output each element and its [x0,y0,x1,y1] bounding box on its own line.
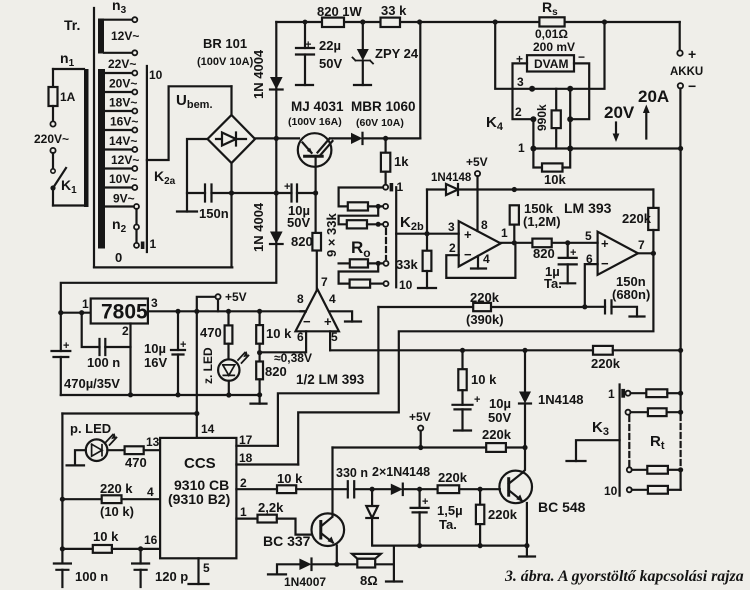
svg-text:1: 1 [501,226,508,240]
svg-text:100 n: 100 n [75,569,108,584]
node rail K4 right [602,19,607,24]
node 7805 input left [58,310,63,315]
wire bridge bottom to 0 line [230,163,232,267]
wire Rt r1 right [667,392,680,394]
svg-text:470µ/35V: 470µ/35V [64,376,120,391]
wire tap 9V [105,205,134,207]
svg-text:4: 4 [329,292,336,306]
node zLED ground [226,392,231,397]
svg-text:10 k: 10 k [266,326,292,341]
transistor BC548 base bar [507,479,510,496]
terminal n2 bottom [134,243,139,248]
wire Rt r2 right [667,411,681,413]
transistor BC337 emitter [321,533,333,543]
resistor 820 1W [322,18,344,27]
wire 10k to 10u50V [461,390,463,405]
svg-text:3: 3 [151,296,158,310]
capacitor 1u Ta plates [559,258,577,265]
IC CCS 9310 box [160,438,236,558]
wire to switch circle [52,153,54,169]
speaker 8ohm cone [352,554,381,559]
svg-text:10V~: 10V~ [109,172,137,186]
svg-text:1: 1 [518,141,525,155]
node +5V distribution [194,309,199,314]
resistor 150k [510,205,519,224]
transistor MJ4031 base bar [305,155,323,158]
wire diode to 1,5u node [403,488,438,490]
svg-text:17: 17 [239,433,253,447]
wire K4 left vertical [495,22,532,89]
wire primary left upper [52,69,54,87]
svg-text:220k: 220k [591,356,621,371]
wire 470 to LED [227,344,229,360]
svg-text:−: − [303,314,311,329]
node rail after 33k [417,19,422,24]
svg-text:MJ 4031: MJ 4031 [291,99,344,114]
resistor 820 upper [312,233,321,251]
svg-text:−: − [578,50,585,64]
wire pulldown bottom [479,524,481,546]
wire opamp3 pin4 [331,311,353,321]
wire opamp3 pin5 [329,331,331,350]
wire +5V terminal stub [217,299,219,311]
diode MBR1060 [351,133,363,144]
wiper mark terminal 1 K2b [390,183,394,191]
wire MBR1060 to corner [363,137,421,139]
svg-text:10: 10 [149,68,163,82]
svg-text:16V: 16V [144,355,167,370]
svg-text:1: 1 [150,237,157,251]
terminal AKKU minus [678,83,683,88]
node pulldown rail [478,543,483,548]
wire pLED left to ground [75,450,86,465]
wire Ro chain top [339,188,383,207]
node 1k tap [383,136,388,141]
wire left rail lower section [61,414,63,562]
wire 820 to ground [259,379,261,403]
capacitor 150n2 wire left [585,306,605,308]
switch K3 arm [576,440,620,461]
wire 7805 pin2 [129,324,131,395]
terminal n2 mid [134,225,139,230]
svg-text:6: 6 [586,252,593,266]
node collector junction [522,445,527,450]
LED p.LED arrows [106,435,117,446]
resistor 10k K4 [542,163,563,171]
node +5V audio [418,445,423,450]
wire 470 to chip pin13 [144,449,160,451]
capacitor 10u 50V wire left [232,192,292,194]
node 1,5u tap [417,487,422,492]
wire emitter to speaker [337,563,358,565]
wire opamp1 output row [501,242,598,244]
wire K4 left column 2-1 [532,119,534,148]
capacitor 22u lower stub [304,55,306,86]
terminal Rt row4 [627,487,632,492]
svg-text:8Ω: 8Ω [360,573,378,588]
resistor Ro r10 [350,280,371,288]
wire +5V stub [476,176,478,189]
wire Ro zigzag 2-3 [339,206,379,224]
wire fuse to terminal [52,106,54,121]
wire Ro dashed continuation [385,229,387,259]
svg-text:820 1W: 820 1W [317,4,363,19]
LED z.LED arrows [238,353,249,364]
svg-text:z. LED: z. LED [201,347,215,384]
wire 33k vertical [426,234,428,251]
wire tap 14V [105,148,132,150]
transistor MJ4031 circle [298,133,332,167]
svg-text:5: 5 [585,229,592,243]
wire MJ4031 to MBR1060 [331,137,352,139]
capacitor 100n2 stub [61,570,63,587]
resistor Ro r8 [350,259,368,267]
wire opamp2 output [638,252,653,254]
capacitor 1,5u wires [419,489,421,545]
resistor 820 mid [532,239,551,248]
wire n3 bottom tap [104,52,132,54]
node ZPY24 rail [360,19,365,24]
LED z.LED circle [218,359,239,380]
svg-text:12V~: 12V~ [111,153,139,167]
resistor 470 zled top wire [227,311,229,325]
transformer n3 winding bar [98,19,104,54]
svg-text:18: 18 [239,451,253,465]
wire diode to +5V rail line [458,188,653,190]
transistor MJ4031 collector arrow [303,143,312,153]
wire Ro r8 left [339,262,350,264]
wire Rt row2 [631,411,648,413]
svg-text:330 n: 330 n [336,466,368,480]
resistor 1k [381,153,390,172]
capacitor 100n plates [100,339,106,355]
LED p.LED circle [86,439,108,461]
switch K1 contact dot [50,185,55,190]
svg-text:20V~: 20V~ [109,77,137,91]
ground bar pLED [67,464,84,466]
transistor BC548 circle [499,471,532,504]
node 220k pulldown tap [478,487,483,492]
wire 7805 input row [61,312,91,314]
wire 10k pin2 to 330n [296,488,348,490]
svg-text:MBR 1060: MBR 1060 [351,99,416,114]
svg-text:14V~: 14V~ [109,134,137,148]
wire DVAM left lead [513,63,534,119]
wire primary bottom [53,204,84,206]
terminal K2b tap3 [383,222,388,227]
terminal tap 18V [132,109,137,114]
wire opamp2 pin6 [585,264,598,307]
wire Ro r8 right [368,262,383,264]
transistor BC337 collector [321,518,332,527]
terminal n3 top [132,17,137,22]
diode 1N4148 opamp1 [446,184,458,195]
node 10u16V rail [175,309,180,314]
svg-text:470: 470 [200,325,222,340]
wire transformer bottom 0 [94,266,232,268]
resistor 990k [552,110,561,128]
node 120p tap [138,546,143,551]
wire Rt row4 [632,489,648,491]
LED p.LED symbol [92,444,102,456]
svg-text:820: 820 [265,364,287,379]
capacitor 100n wire left [82,313,100,347]
terminal tap 22V [132,71,137,76]
wire 820 column upper [316,193,317,289]
wire ground to 1N4007 [277,564,299,574]
diode 2x1N4148 a [391,484,403,495]
svg-text:ZPY 24: ZPY 24 [375,46,419,61]
capacitor 120p wire [140,549,142,564]
wire 220k(10k) row pin4 [62,498,101,500]
svg-text:2×1N4148: 2×1N4148 [372,465,430,479]
wire 330n to diode [354,488,372,490]
svg-text:9 × 33k: 9 × 33k [324,212,339,257]
svg-text:5: 5 [203,561,210,575]
terminal Rt row3 [627,467,632,472]
wire 1N4004 column [61,22,276,313]
node 220k left rail [60,497,65,502]
node 33k / K2b [424,231,429,236]
svg-text:990k: 990k [535,104,549,131]
svg-text:1/2 LM 393: 1/2 LM 393 [296,372,365,387]
wire diode b to rail [371,518,373,546]
svg-text:BR 101: BR 101 [203,36,247,51]
wire opamp1 pin4 ground stub [477,256,479,269]
node 150k top [512,187,517,192]
wire 10k left leg [533,149,542,168]
wire 330n row left [348,481,354,497]
svg-text:10 k: 10 k [277,471,303,486]
resistor 220k collector row [486,443,506,452]
svg-text:3: 3 [517,75,524,89]
node pin2 ground [128,392,133,397]
svg-text:50V: 50V [287,215,310,230]
svg-text:220k: 220k [438,470,468,485]
resistor 33k lower [423,251,432,271]
svg-text:220k: 220k [470,290,500,305]
svg-text:(100V 10A): (100V 10A) [197,56,254,68]
svg-text:2,2k: 2,2k [258,500,284,515]
node 22u rail [303,20,308,25]
svg-text:+: + [305,39,311,51]
svg-text:22µ: 22µ [319,38,341,53]
svg-text:2: 2 [449,241,456,255]
resistor 10k pin16 [93,545,112,553]
svg-text:7805: 7805 [101,301,148,324]
resistor 10k hang [458,369,466,390]
svg-text:+: + [464,227,472,242]
svg-text:470: 470 [125,455,147,470]
wire speaker right [375,563,394,565]
svg-text:1A: 1A [60,90,76,104]
node diode drop tap [522,348,527,353]
wire BC337 collector up [331,448,333,517]
wire K2b selector bus [395,187,397,287]
wire 220k to BC548 base [459,488,500,490]
wire K2b to comparator input [396,233,459,235]
svg-text:5: 5 [331,330,338,344]
svg-text:10 k: 10 k [93,529,119,544]
wire right edge dashed [679,415,681,467]
svg-text:1N 4004: 1N 4004 [251,202,266,252]
capacitor 150n2 plates [605,300,612,313]
wire 10k to 820 [259,344,261,362]
wire +5V audio stub [420,431,422,448]
bridge rectifier BR101 diamond [208,115,256,163]
svg-text:Ta.: Ta. [439,517,457,532]
svg-text:(1,2M): (1,2M) [523,214,561,229]
wire opamp3 pin6 [260,331,307,352]
ground bar opamp1 [471,267,486,269]
resistor 220k pulldown [476,505,484,524]
node Rt row2 right [678,410,683,415]
node right edge comparator row [678,348,683,353]
terminal K2b tap2 [383,204,388,209]
svg-text:20A: 20A [638,87,669,106]
svg-text:(10 k): (10 k) [100,504,134,519]
resistor Rt r1 [646,389,667,397]
resistor 220k base [438,485,460,493]
terminal +5V regulator [215,294,220,299]
wire 1k to terminal [385,172,387,185]
op-amp U1b triangle [598,232,638,275]
wire zLED to ground rail [228,381,230,395]
wiper mark terminal 1 n2 [141,242,145,250]
terminal AKKU plus [677,50,682,55]
svg-text:AKKU: AKKU [670,66,703,78]
node 820 ground rail [257,392,262,397]
wire Rt row1 [631,392,647,394]
resistor 1k wire top [385,138,387,152]
svg-text:1N 4004: 1N 4004 [251,49,266,99]
wire 10k row pin16 [62,548,92,550]
dead-end bar left of 150n [177,210,197,212]
wire right edge vertical upper [679,149,681,351]
capacitor 150n plates [205,185,212,202]
capacitor 1u Ta stub [567,264,569,283]
svg-text:2: 2 [515,105,522,119]
node 10u16V ground [175,392,180,397]
wire +5V output rail [148,310,306,312]
resistor 33k top [381,18,401,27]
bridge inner diode [216,133,246,146]
svg-text:Ta.: Ta. [544,276,562,291]
node K4 contact 1 left [530,146,536,152]
svg-text:+: + [570,247,576,259]
wire speaker to bottom rail [393,546,395,581]
arrow 20A up [645,110,647,139]
wire integrator line A [378,306,584,308]
svg-text:1N4007: 1N4007 [284,575,326,589]
wire 33k/diode vertical top [426,190,428,234]
node 10k hang tap [460,348,465,353]
wire DVAM right lead [570,63,589,119]
capacitor 10u50V stub [461,409,463,430]
resistor 10k divider [256,325,263,344]
svg-text:p. LED: p. LED [70,421,111,436]
wire BC548 collector up [523,448,526,473]
capacitor 470u/35V lower [60,357,62,395]
terminal K2b tap9 [384,261,389,266]
svg-text:7: 7 [638,238,645,252]
wire K4 right column 3-1 [569,89,571,149]
wire 10k right leg [563,149,571,168]
node 1N4004 column / MBR row [274,136,279,141]
wire bridge top to Ubem [230,86,232,115]
wire chip pin2 row [236,488,277,490]
svg-text:10 k: 10 k [471,372,497,387]
svg-text:+: + [422,496,428,508]
svg-text:10µ: 10µ [144,341,166,356]
svg-text:10: 10 [399,278,413,292]
wire opamp2 output to pin18 route [298,253,653,464]
wire bottom ground rail [374,544,527,546]
wire MJ4031 emitter down [315,156,317,193]
node 0,38V [257,350,262,355]
wire primary top [53,68,84,70]
node divider rail [257,309,262,314]
resistor 990k wire bottom [555,128,557,148]
node minus line right [678,146,683,151]
wire pulldown top [479,489,481,505]
node 10k left rail [60,546,65,551]
svg-text:+: + [516,52,523,66]
ground bar divider [251,403,267,405]
svg-text:Tr.: Tr. [64,17,80,33]
op-amp U2a triangle [296,289,339,331]
op-amp U1a triangle [459,221,501,266]
svg-text:9V~: 9V~ [113,192,135,206]
wire Rt r3 right [668,469,681,471]
svg-text:8: 8 [297,292,304,306]
ground bar opamp3 [345,320,361,322]
terminal 220V lower [50,148,55,153]
wire 220k to right edge [613,349,681,351]
resistor Ro r2 [348,202,368,210]
diode 1N4004 upper [270,77,283,90]
svg-text:2: 2 [122,324,129,338]
wire K2a selector bus [146,66,148,252]
node K4 contact 1 right [567,146,573,152]
svg-text:0,01Ω: 0,01Ω [535,27,568,41]
capacitor 10u16V bottom [177,355,179,395]
meter DVAM box [527,55,574,71]
node opamp1 output [512,240,517,245]
terminal tap 9V [134,204,139,209]
LED z.LED symbol [223,365,235,376]
svg-text:18V~: 18V~ [109,96,137,110]
resistor 820 divider [256,362,263,380]
resistor 10k pin2 [277,485,296,493]
resistor Ro r3 [347,220,367,228]
switch K3 bus [618,385,620,496]
svg-text:50V: 50V [488,410,511,425]
speaker 8ohm body [357,559,375,568]
node bridge bottom / 150n [229,190,234,195]
switch K1 pivot circle [51,169,55,173]
svg-text:1N4148: 1N4148 [431,172,472,184]
terminal Rt row1 [626,391,631,396]
zener ZPY24 end bar [354,84,371,86]
node 1N4004 column / 10u row [274,190,279,195]
capacitor 120p stub [140,570,142,587]
wire comparator row to right edge [330,349,593,351]
svg-text:1k: 1k [394,154,409,169]
svg-text:14: 14 [201,422,215,436]
wire K4 row3 [532,88,570,90]
capacitor 10u 50V wire right [297,192,316,194]
